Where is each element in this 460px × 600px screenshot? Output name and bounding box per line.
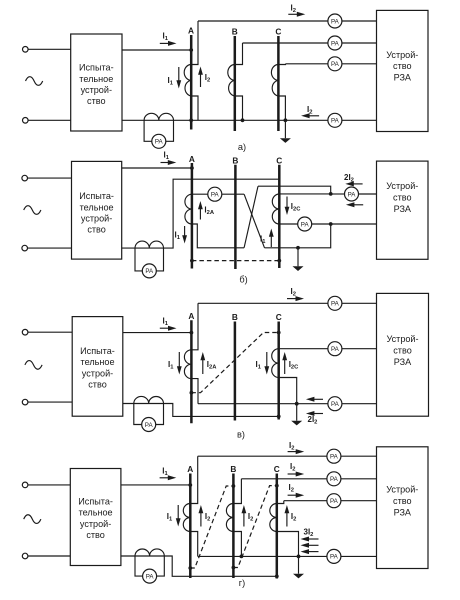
junction ground tap — [296, 246, 300, 250]
CT meter loop — [144, 120, 173, 141]
svg-text:I1: I1 — [168, 76, 174, 87]
wire node N2 riser to bottom — [265, 224, 331, 248]
svg-text:A: A — [189, 154, 195, 164]
svg-text:РЗА: РЗА — [394, 72, 412, 82]
wire B secondary to PA2 — [243, 42, 377, 44]
wire test box to bus A — [122, 167, 192, 169]
ammeter PA on CT — [142, 264, 156, 278]
ammeter PA on CT — [143, 569, 157, 583]
CT winding phase C — [272, 349, 279, 378]
arrow left 3I2 first — [307, 538, 319, 540]
svg-text:Испыта-: Испыта- — [80, 346, 115, 356]
dashed jumper B to C — [233, 486, 276, 568]
arrow I2 top — [287, 298, 298, 300]
svg-text:3I2: 3I2 — [304, 528, 314, 539]
junction node N1 — [329, 192, 333, 196]
svg-text:I1: I1 — [167, 512, 173, 523]
arrow I1 feed — [160, 42, 170, 44]
svg-text:тельное: тельное — [81, 357, 115, 367]
CT winding phase C — [270, 504, 277, 532]
wire C secondary bottom stub to PA — [279, 223, 297, 225]
wire B secondary top stub — [235, 43, 243, 65]
junction bus A return — [189, 118, 193, 122]
arrow I1 down at winding A — [177, 505, 179, 521]
svg-text:I1: I1 — [168, 360, 174, 371]
bus B — [234, 165, 237, 269]
wire A secondary top stub — [191, 303, 198, 350]
ammeter PA1 — [328, 14, 342, 28]
svg-text:PA: PA — [145, 422, 154, 429]
wire terminal to test box lower — [28, 401, 72, 403]
wire B secondary bottom stub — [233, 532, 241, 557]
svg-text:I2A: I2A — [204, 206, 214, 217]
wire test box to bus A — [122, 49, 191, 51]
junction B secondary bottom — [240, 555, 244, 559]
wire B secondary bottom stub — [235, 96, 243, 120]
ammeter PA3 — [328, 397, 342, 411]
ammeter PA4 — [328, 113, 342, 127]
arrow I2A up at winding A — [199, 207, 201, 220]
bus A — [190, 35, 193, 130]
wire C secondary top stub — [278, 63, 285, 66]
arrow I2 up at winding C — [286, 511, 288, 527]
svg-text:I1: I1 — [163, 316, 169, 327]
svg-text:I1: I1 — [256, 360, 262, 371]
arrow I2A up at winding A — [202, 358, 204, 375]
svg-text:PA: PA — [330, 476, 339, 483]
arrow left below PA3 — [312, 413, 323, 415]
junction B secondary bottom — [241, 118, 245, 122]
wire C secondary to PA3 — [286, 63, 377, 65]
dashed jumper A to C — [191, 333, 278, 393]
RZA device box — [377, 447, 429, 569]
svg-text:C: C — [276, 312, 282, 322]
ground at bottom node — [297, 248, 299, 266]
wire PA to crossing — [222, 193, 244, 195]
svg-text:PA: PA — [331, 18, 340, 25]
junction dashed at C — [277, 331, 281, 335]
CT winding phase C — [272, 194, 279, 224]
svg-text:C: C — [275, 27, 281, 37]
arrow left above PA 2I2 — [352, 183, 363, 185]
svg-text:Испыта-: Испыта- — [79, 191, 114, 201]
source terminal lower — [22, 399, 28, 405]
wire B secondary top stub — [233, 479, 241, 504]
AC source tilde — [24, 206, 41, 215]
svg-text:ство: ство — [87, 225, 106, 235]
bus C — [276, 474, 279, 579]
CT meter loop — [134, 404, 164, 425]
svg-text:C: C — [276, 155, 282, 165]
svg-text:B: B — [230, 464, 236, 474]
svg-text:устрой-: устрой- — [82, 368, 113, 378]
arrow I1 down at winding C — [266, 352, 268, 369]
CT winding phase C — [271, 65, 278, 97]
junction bus A feed — [190, 331, 194, 335]
ammeter PA4 — [327, 549, 341, 563]
test device box — [72, 317, 123, 417]
svg-text:PA: PA — [330, 498, 339, 505]
wire A secondary top stub — [191, 21, 198, 65]
svg-text:устрой-: устрой- — [80, 519, 111, 529]
arrow I2C down at winding C — [286, 197, 288, 210]
CT winding phase A — [185, 194, 192, 224]
through CT on return wire — [135, 241, 164, 248]
source terminal upper — [22, 175, 28, 181]
junction node N2 — [329, 222, 333, 226]
ammeter PA on CT — [152, 134, 166, 148]
bus A — [191, 163, 194, 269]
arrow I2 return left — [308, 115, 320, 117]
svg-text:г): г) — [239, 578, 245, 588]
ammeter PA2 — [328, 342, 342, 356]
AC source tilde — [26, 77, 43, 86]
svg-text:PA: PA — [331, 346, 340, 353]
arrow I2 up at winding B — [243, 511, 245, 527]
junction bus B jumper start — [232, 566, 236, 570]
crossing diagonal A-top to bottom-node — [244, 194, 264, 248]
svg-text:PA: PA — [348, 191, 357, 198]
junction jumper at B top — [232, 484, 236, 488]
ammeter PA2 — [327, 472, 341, 486]
svg-text:ство: ство — [88, 379, 107, 389]
svg-text:I2C: I2C — [289, 360, 299, 371]
junction bus A jumper start — [188, 566, 192, 570]
wire secondary bottom to PA4 — [198, 555, 377, 557]
through CT on return wire — [135, 549, 164, 556]
svg-text:РЗА: РЗА — [394, 357, 412, 367]
svg-text:A: A — [188, 26, 194, 36]
ground at bottom wire — [298, 556, 300, 573]
wire C secondary to PA3 — [284, 500, 377, 502]
CT meter loop — [135, 556, 164, 576]
crossing diagonal A-bottom to top-node — [244, 186, 258, 248]
svg-text:I2: I2 — [291, 287, 296, 298]
arrow I2 top — [288, 13, 299, 15]
source terminal upper — [23, 47, 29, 53]
svg-text:PA: PA — [331, 61, 340, 68]
wire A secondary bottom stub — [190, 532, 197, 557]
arrow left above PA3 — [312, 398, 323, 400]
wire terminal to test box lower — [28, 555, 70, 557]
arrow I1 down at winding A — [178, 67, 180, 83]
svg-text:Испыта-: Испыта- — [79, 63, 114, 73]
test device box — [70, 469, 121, 566]
svg-text:ство: ство — [393, 61, 412, 71]
ground at C secondary — [296, 404, 298, 421]
arrow I1 feed — [160, 477, 170, 479]
RZA device box — [377, 10, 429, 131]
wire terminal to test box upper — [28, 484, 70, 486]
ammeter PA3 — [328, 57, 342, 71]
junction return at bus C — [275, 574, 279, 578]
wire test return via CT — [123, 404, 279, 417]
junction ground tap — [297, 555, 301, 559]
test device box — [72, 161, 122, 259]
test device box — [71, 34, 122, 131]
wire test box to bus A — [123, 332, 192, 334]
wire terminal to test box upper — [28, 48, 71, 50]
svg-text:ство: ство — [86, 530, 105, 540]
svg-text:Устрой-: Устрой- — [386, 484, 418, 494]
AC source tilde — [25, 361, 42, 370]
arrow I2 up at winding A — [200, 511, 202, 527]
svg-text:Устрой-: Устрой- — [386, 181, 418, 191]
arrow I2 up at winding A — [200, 72, 202, 87]
svg-text:I2: I2 — [248, 512, 253, 523]
svg-text:устрой-: устрой- — [81, 85, 112, 95]
source terminal lower — [23, 118, 29, 124]
wire PA 2I2 to box — [359, 193, 377, 195]
svg-text:тельное: тельное — [80, 202, 114, 212]
wire C secondary top stub — [277, 501, 284, 504]
svg-text:PA: PA — [331, 301, 340, 308]
arrow I2 wire1 — [288, 451, 298, 453]
svg-text:РЗА: РЗА — [394, 507, 412, 517]
svg-text:PA: PA — [301, 221, 310, 228]
svg-text:PA: PA — [331, 40, 340, 47]
svg-text:I2: I2 — [205, 73, 210, 84]
CT winding phase A — [183, 504, 190, 532]
junction bus A feed — [188, 483, 192, 487]
dashed jumper A to B — [190, 486, 233, 568]
CT winding phase A — [184, 65, 191, 97]
RZA device box — [377, 293, 429, 416]
bus B — [232, 474, 235, 579]
wire secondary bottom to PA3 — [198, 403, 377, 405]
svg-text:PA: PA — [145, 268, 154, 275]
junction C secondary bottom — [284, 118, 288, 122]
svg-text:B: B — [232, 155, 238, 165]
svg-text:B: B — [232, 312, 238, 322]
wire test return via CT — [121, 556, 277, 576]
svg-text:I2: I2 — [290, 462, 295, 473]
svg-text:устрой-: устрой- — [81, 214, 112, 224]
junction bus A feed — [190, 166, 194, 170]
svg-text:I1: I1 — [162, 467, 168, 478]
bus C — [277, 322, 280, 420]
svg-text:ство: ство — [87, 96, 106, 106]
arrow I1 feed — [161, 162, 170, 164]
svg-text:PA: PA — [155, 139, 164, 146]
bus A — [190, 320, 193, 423]
wire C secondary top to PA2 — [279, 348, 377, 350]
arrow I2C up at winding C — [284, 358, 286, 375]
CT winding phase A — [184, 350, 191, 379]
ammeter PA 2I2 — [345, 187, 359, 201]
bus A — [189, 474, 192, 579]
ground at C secondary — [284, 120, 286, 138]
svg-text:в): в) — [237, 429, 245, 439]
wire test box to bus A — [121, 484, 190, 486]
svg-text:PA: PA — [331, 118, 340, 125]
ammeter PA2 — [328, 36, 342, 50]
wire C secondary bottom stub — [278, 96, 285, 120]
wire A secondary bottom stub — [191, 379, 198, 404]
svg-text:РЗА: РЗА — [394, 204, 412, 214]
svg-text:I2A: I2A — [207, 360, 217, 371]
svg-text:PA: PA — [211, 192, 220, 199]
svg-text:C: C — [274, 464, 280, 474]
svg-text:I2: I2 — [307, 105, 312, 116]
svg-text:ство: ство — [393, 346, 412, 356]
svg-text:PA: PA — [146, 573, 155, 580]
ammeter PA3 — [327, 494, 341, 508]
svg-text:I1: I1 — [164, 151, 170, 162]
ammeter PA on CT — [142, 418, 156, 432]
wire A secondary bottom stub — [191, 96, 198, 120]
arrow I1 feed — [160, 327, 170, 329]
through CT on return wire — [144, 113, 173, 120]
svg-text:A: A — [187, 464, 193, 474]
svg-text:B: B — [232, 27, 238, 37]
arrow left below PA 2I2 — [352, 204, 363, 206]
wire A secondary to PA1 — [198, 302, 377, 304]
CT winding phase B — [228, 65, 235, 97]
wire terminal to test box upper — [28, 177, 72, 179]
svg-text:Устрой-: Устрой- — [386, 50, 418, 60]
source terminal lower — [22, 553, 28, 559]
wire A secondary top stub — [190, 456, 197, 503]
bus B — [234, 36, 237, 131]
svg-text:PA: PA — [331, 401, 340, 408]
wire test return via CT — [122, 179, 280, 248]
wire A secondary bottom stub — [192, 224, 244, 248]
junction dashed at A — [190, 259, 194, 263]
wire C secondary bottom stub — [277, 532, 299, 557]
common return wire to PA4 — [122, 119, 377, 121]
arrow I1 up below winding C — [270, 234, 272, 247]
wire PA C to node N2 — [312, 223, 377, 225]
svg-text:I2: I2 — [291, 512, 296, 523]
arrow left 3I2 second — [307, 544, 319, 546]
svg-text:I1: I1 — [163, 32, 169, 43]
junction bus A dashed start — [190, 391, 194, 395]
arrow I1 down at winding A — [178, 352, 180, 369]
svg-text:PA: PA — [330, 454, 339, 461]
wire B secondary to PA2 — [241, 478, 376, 480]
svg-text:I2C: I2C — [291, 202, 301, 213]
wire terminal to test box upper — [28, 331, 72, 333]
through CT on return wire — [134, 396, 164, 403]
svg-text:Устрой-: Устрой- — [386, 334, 418, 344]
source terminal upper — [22, 482, 28, 488]
wire terminal to test box lower — [28, 119, 71, 121]
junction bus A feed — [189, 48, 193, 52]
CT meter loop — [135, 248, 164, 271]
wire A secondary to PA1 — [198, 20, 377, 22]
wire C secondary top to node N1 — [279, 193, 330, 195]
AC source tilde — [24, 515, 41, 524]
wire crossing to node N1 riser — [258, 186, 331, 194]
junction jumper at C top — [275, 484, 279, 488]
wire node N1 to PA 2I2 — [331, 193, 345, 195]
svg-text:I2: I2 — [289, 483, 294, 494]
ammeter PA phase C — [298, 217, 312, 231]
bus B — [234, 322, 237, 421]
arrow I2 wire3 — [288, 494, 298, 496]
source terminal upper — [22, 329, 28, 335]
svg-text:тельное: тельное — [79, 74, 113, 84]
svg-text:I2: I2 — [205, 512, 210, 523]
wire A secondary top stub to PA — [192, 193, 208, 195]
svg-text:I2: I2 — [289, 441, 294, 452]
svg-text:I1: I1 — [260, 235, 266, 246]
ammeter PA1 — [328, 296, 342, 310]
bus C — [278, 165, 281, 268]
wire C secondary bottom stub — [279, 378, 297, 404]
junction C secondary ground — [295, 402, 299, 406]
bus C — [277, 36, 280, 131]
svg-text:I1: I1 — [175, 231, 181, 242]
junction return at bus C — [277, 415, 281, 419]
arrow I1 down below winding A — [184, 226, 186, 238]
RZA device box — [377, 161, 429, 259]
junction dashed at C — [277, 259, 281, 263]
arrow I2 wire2 — [288, 473, 298, 475]
ammeter PA phase A — [208, 187, 222, 201]
svg-text:ство: ство — [393, 193, 412, 203]
svg-text:PA: PA — [330, 554, 339, 561]
svg-text:а): а) — [238, 142, 246, 152]
ammeter PA1 — [327, 449, 341, 463]
wire terminal to test box lower — [28, 247, 72, 249]
svg-text:тельное: тельное — [79, 508, 113, 518]
CT winding phase B — [226, 504, 233, 532]
svg-text:2I2: 2I2 — [308, 415, 318, 426]
source terminal lower — [22, 245, 28, 251]
arrow left 3I2 third — [307, 551, 319, 553]
svg-text:A: A — [188, 311, 194, 321]
wire A secondary to PA1 — [198, 455, 377, 457]
svg-text:ство: ство — [393, 496, 412, 506]
dashed primary return A to C — [192, 260, 279, 262]
svg-text:б): б) — [239, 275, 247, 285]
svg-text:I2: I2 — [291, 4, 296, 15]
svg-text:Испыта-: Испыта- — [78, 496, 113, 506]
